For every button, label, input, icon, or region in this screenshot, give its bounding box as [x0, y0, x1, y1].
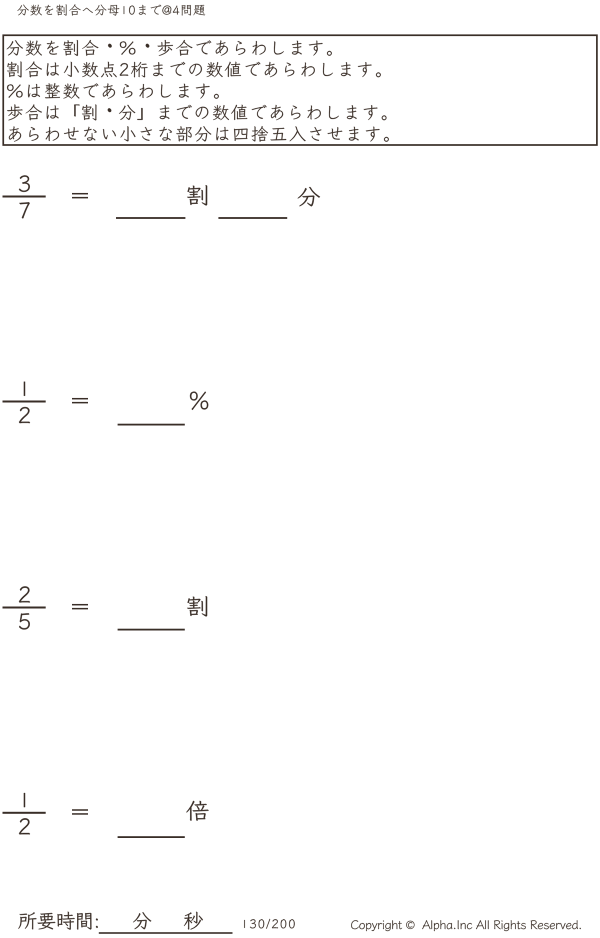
instruction line 2 — [7, 62, 381, 78]
sheet number 130/200 — [244, 919, 295, 929]
problem 4: fraction 1/2 — [24, 793, 25, 807]
answer blank line — [118, 424, 185, 426]
answer blank line — [118, 836, 185, 838]
answer blank line — [116, 217, 185, 219]
equals sign — [72, 193, 88, 195]
footer: 所要時間 — [18, 912, 97, 930]
unit label 割 — [187, 596, 207, 616]
page title: 分数を割合へ分母10まで@4問題 — [17, 4, 205, 15]
problem 3: fraction 2/5 — [19, 586, 30, 602]
unit label 割 — [187, 185, 207, 205]
copyright notice — [351, 920, 581, 931]
instruction line 3 — [7, 83, 219, 99]
answer blank line — [118, 629, 185, 631]
unit label 倍 — [186, 801, 208, 821]
answer blank line — [218, 217, 287, 219]
equals sign — [72, 398, 88, 400]
instruction line 5 — [9, 126, 389, 142]
problem 2: fraction 1/2 — [24, 382, 25, 396]
instruction box border — [3, 35, 597, 145]
unit label 分 — [298, 187, 320, 206]
instruction line 4 — [7, 105, 386, 121]
instruction line 1 — [7, 40, 332, 56]
unit label ％ — [190, 392, 208, 410]
equals sign — [72, 604, 88, 606]
footer time blank line — [99, 932, 233, 934]
problem 1: fraction 3/7 — [19, 175, 30, 192]
equals sign — [72, 809, 88, 811]
